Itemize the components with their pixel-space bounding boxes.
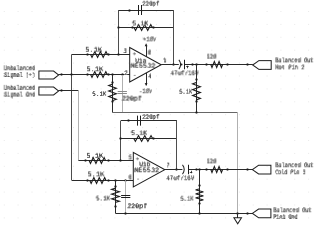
junction dot shunt C U1b (124, 179, 126, 181)
label Cold Pin 3 (275, 170, 305, 174)
label R12 5.1K (180, 196, 193, 200)
junction dot feedback to pin5 (119, 159, 121, 161)
connector flag Balanced Out Cold (252, 165, 271, 174)
junction dot R9 right (107, 179, 109, 181)
connector flag input signal+ (39, 71, 59, 79)
junction dot input1 branch (70, 73, 72, 75)
junction dot after C3 (191, 63, 193, 65)
label -18V (140, 89, 152, 93)
label R3 5.1K (132, 21, 148, 25)
label pin 5 (129, 155, 132, 159)
junction dot R12 top (198, 184, 200, 186)
label U1a (135, 58, 146, 62)
junction dot feedback to pin3 (117, 53, 119, 55)
label pin 4 (148, 74, 151, 78)
label Balanced Out 2 (275, 163, 313, 167)
label R5 120 (207, 54, 216, 58)
junction dot R10 top (114, 185, 116, 187)
label R2 5.1K (87, 67, 103, 71)
label pin 7 (167, 163, 169, 167)
junction dot R3 left (131, 26, 133, 28)
junction dot input2 tip (60, 89, 62, 91)
junction dot cap row U1b (127, 119, 129, 121)
junction dot R11 left (205, 168, 207, 170)
label U1a NE5532 (130, 63, 155, 67)
label Balanced Out 3 (273, 208, 311, 212)
label Pin1 Gnd (273, 215, 297, 219)
junction dot R4 bottom (111, 100, 113, 102)
junction dot flag3 (246, 212, 248, 214)
wire R6 vertical top (196, 65, 198, 112)
resistor R3 5.1K feedback U1a (134, 25, 152, 31)
resistor R10 5.1K shunt U1b (112, 188, 120, 202)
junction dot rail/R6 (195, 111, 197, 113)
wire pin3 row (72, 54, 130, 56)
label C4 220pf (142, 115, 159, 120)
op-amp U1b triangle (133, 152, 165, 187)
connector flag input gnd (39, 87, 59, 95)
wire feedback cap row U1a (119, 10, 174, 12)
junction dot flag1 (246, 63, 248, 65)
resistor R1 5.1K to pin3 (91, 52, 108, 58)
label R1 5.1K (86, 47, 102, 51)
wire after C6 (189, 169, 253, 171)
junction dot R5 right (226, 63, 228, 65)
capacitor C6 47uf/16V U1b (183, 165, 193, 174)
capacitor C1 220pf feedback U1a (139, 5, 142, 15)
wire feedback right vertical U1b (176, 121, 178, 170)
label pin 1 (163, 58, 166, 62)
label Signal Gnd (4, 92, 35, 98)
wire input2 row (59, 90, 79, 92)
label U1b plus input (136, 158, 139, 160)
junction dot feedback/output U1b (175, 168, 177, 170)
junction dot R3 right (152, 26, 154, 28)
label pin 3 (123, 49, 126, 53)
label R4 5.1K (92, 92, 106, 96)
wire feedback left vertical U1a (118, 10, 120, 54)
label R11 120 (207, 159, 216, 163)
label U1b NE5532 (134, 168, 159, 172)
junction dot R5 left (205, 63, 207, 65)
label pin 8 (148, 50, 151, 54)
wire feedback resistor row U1a (119, 27, 174, 29)
junction dot R12 bottom (198, 202, 200, 204)
power -18V arrow (145, 83, 148, 86)
junction dot shunt junction (195, 63, 197, 65)
junction dot cap row (128, 9, 130, 11)
junction dot R6 bottom (195, 100, 197, 102)
junction dot feedback/5.1K row (117, 26, 119, 28)
wire shunt C vertical U1b (125, 180, 127, 213)
junction dot bottom/rail (236, 212, 238, 214)
connector flag Balanced Out Hot (253, 61, 272, 70)
label Balanced Out 1 (275, 58, 313, 62)
junction dot bottom/C5 (124, 212, 126, 214)
wire feedback right vertical U1a (173, 10, 175, 65)
resistor R11 120 output U1b (211, 167, 223, 173)
junction dot input1 tip (60, 73, 62, 75)
label R10 5.1K (96, 196, 110, 200)
junction dot R4 top (111, 81, 113, 83)
capacitor C5 220pf shunt U1b (121, 196, 130, 198)
junction dot shunt junction U1b (198, 168, 200, 170)
label R7 5.1K (87, 153, 103, 157)
junction dot bottom/R12 (198, 212, 200, 214)
label Hot Pin 2 (275, 65, 304, 69)
label R6 5.1K (179, 89, 192, 93)
wire feedback resistor row U1b (121, 138, 177, 140)
wire shunt C vertical (122, 75, 124, 112)
wire output row U1a (161, 64, 179, 66)
junction dot R6 top (195, 78, 197, 80)
wire output row U1b (165, 169, 183, 171)
resistor R8 5.1K feedback U1b (134, 136, 153, 142)
label R8 5.1K (131, 131, 147, 135)
junction dot after C6 (195, 168, 197, 170)
connector flag Balanced Out Gnd (252, 209, 271, 218)
resistor R4 5.1K shunt U1a (109, 84, 117, 101)
label pin 6 (128, 175, 131, 179)
label C1 220pf (142, 1, 159, 6)
junction dot R2 right (107, 73, 109, 75)
resistor R6 5.1K shunt out U1a (193, 82, 201, 99)
junction dot R10 bottom (114, 205, 116, 207)
resistor R9 5.1K to pin6 (90, 178, 106, 184)
wire bottom ground row (116, 213, 253, 215)
label U1a plus input (133, 53, 136, 55)
label U1b minus input (137, 178, 139, 180)
wire pin6 row (72, 180, 134, 182)
wire rail right vertical (237, 112, 239, 213)
junction dot feedback/5.1K row U1b (119, 137, 121, 139)
resistor R7 5.1K to pin5 (89, 158, 105, 164)
ground symbol (234, 213, 242, 223)
junction dot R7 left (84, 159, 86, 161)
wire after C3 (185, 64, 253, 66)
power +18V arrow (145, 43, 148, 46)
label Unbalanced 1 (4, 66, 35, 70)
junction dot flag2 (246, 168, 248, 170)
wire pin2 row (59, 74, 130, 76)
junction dot R8 right (152, 137, 154, 139)
label R9 5.1K (88, 172, 104, 176)
label C5 220pf (127, 204, 147, 209)
junction dot R11 right (226, 168, 228, 170)
resistor R2 5.1K to pin2 (91, 72, 108, 78)
label Unbalanced 2 (4, 85, 35, 89)
wire +18V stub (146, 45, 148, 57)
junction dot shunt C (121, 73, 123, 75)
junction dot feedback/output U1a (172, 63, 174, 65)
wire feedback left vertical U1b (120, 121, 122, 161)
wire shunt R vertical (112, 75, 114, 112)
label C2 220pf (122, 96, 142, 101)
capacitor C3 47uf/16V U1a (179, 60, 189, 69)
capacitor C4 220pf feedback U1b (138, 116, 141, 126)
junction dot shunt R U1b (114, 179, 116, 181)
wire feedback cap row U1b (121, 120, 177, 122)
label pin 2 (124, 71, 127, 75)
junction dot shunt R (111, 73, 113, 75)
junction dot R1 right (107, 53, 109, 55)
label U1b (139, 162, 150, 166)
label +18V (143, 37, 156, 41)
wire R12 vertical (199, 170, 201, 214)
wire shunt R vertical U1b (115, 180, 117, 213)
junction dot R1 left (86, 53, 88, 55)
resistor R5 120 output U1a (211, 62, 223, 68)
wire pin5 row (78, 160, 133, 162)
wire input2 vertical (78, 91, 80, 160)
wire -18V stub (146, 73, 148, 86)
junction dot R9 left (86, 179, 88, 181)
label Signal (+) (4, 73, 35, 79)
junction dot R7 right (107, 159, 109, 161)
resistor R12 5.1K shunt out U1b (196, 189, 204, 201)
wire pin3 left vertical (71, 54, 73, 180)
label C6 47uf/16V (166, 176, 194, 180)
junction dot R2 left (86, 73, 88, 75)
label U1a minus input (134, 74, 136, 76)
label C3 47uf/16V (170, 71, 198, 75)
capacitor C2 220pf shunt U1a (118, 92, 127, 94)
op-amp U1a triangle (130, 48, 162, 83)
wire ground rail middle (112, 112, 238, 114)
